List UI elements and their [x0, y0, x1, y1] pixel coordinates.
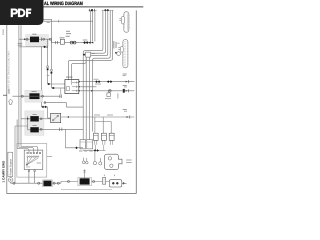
pentagon node marker	[9, 99, 13, 104]
connector C ring left	[26, 38, 28, 40]
starter pin lines	[126, 160, 131, 162]
wire into relay left y84	[48, 83, 65, 85]
tick on wire B	[58, 20, 60, 23]
coil drops to wire y150.5	[96, 145, 104, 151]
junction dot between circles	[72, 42, 73, 43]
verticals left lower x15 x17 x20 x22	[14, 126, 16, 183]
jog to y181.5	[60, 182, 62, 184]
stub wire right of housing	[47, 155, 52, 157]
K6 stem ticks	[83, 170, 85, 172]
RH2 left tab	[120, 46, 123, 52]
label above group2	[103, 5, 110, 8]
starter contact circles	[108, 157, 111, 160]
wire vertical x21	[20, 25, 22, 146]
diagram frame left border	[6, 7, 8, 193]
wire vertical pair under badge	[18, 25, 20, 147]
svg-text:Cont.: Cont.	[2, 29, 5, 35]
section tick across left border	[3, 94, 7, 96]
junction verticals x47.6 x51.4	[48, 39, 52, 88]
fusible link K5 outline	[43, 180, 53, 187]
label above relay U1	[66, 76, 73, 79]
tick end y117	[129, 115, 131, 118]
wire from badge area y19	[44, 18, 52, 20]
RH1 pin marks	[119, 19, 121, 21]
diamond y106.9 b	[44, 106, 47, 109]
wire relay pin1 right y81.6	[80, 81, 134, 83]
wire vertical g1 x92.7	[92, 10, 94, 41]
ignition coil K6 black	[80, 178, 90, 184]
label row3	[66, 35, 70, 38]
wire vertical x17.1 lower	[16, 120, 18, 149]
condenser cap1	[80, 140, 86, 149]
ignition coil 3	[109, 133, 114, 140]
junction dot group1	[91, 9, 93, 11]
ground blob right y91	[123, 89, 125, 93]
diamond connector d1	[83, 41, 86, 44]
battery feed stub	[10, 182, 12, 183]
arrow connector y117	[127, 116, 129, 118]
diamond on L wire	[75, 147, 78, 150]
ignition coil K6 outline	[78, 178, 92, 186]
label above K1	[32, 33, 36, 36]
labels above wire y117	[94, 114, 100, 117]
wire vertical x53	[51, 19, 53, 42]
relay feed wire F1	[68, 10, 112, 79]
connector arrow left of panel	[24, 38, 26, 40]
connector tick x92.9	[90, 41, 92, 44]
svg-text:CAMRY 3S-FE ENGINE (USA) EWD: CAMRY 3S-FE ENGINE (USA) EWD	[8, 51, 11, 93]
coil drops	[95, 117, 111, 133]
relay U1 inner lines	[66, 80, 79, 92]
vertical label above pentagon	[8, 89, 11, 94]
wire y102.6	[44, 103, 83, 108]
connector arrows end of main wire	[89, 42, 91, 44]
wire relay pin3 right y90.8	[80, 90, 134, 92]
tick end y81.6	[128, 80, 130, 83]
small component in bus area	[86, 52, 91, 57]
connector ring left of K2	[21, 95, 23, 97]
sensor stem 1	[83, 158, 85, 161]
connector tick pair on y129.3	[59, 128, 62, 131]
ignition coil 2	[102, 133, 107, 140]
contact circles pair	[70, 41, 73, 44]
svg-text:AL WIRING DIAGRAM: AL WIRING DIAGRAM	[44, 1, 83, 7]
ignition labels	[37, 162, 42, 165]
connector open square on x47.6	[47, 66, 49, 68]
fusible link K5 black	[43, 181, 51, 187]
junction dot x68.3	[68, 116, 69, 117]
starter housing S1	[104, 154, 122, 169]
battery ring icon	[8, 178, 13, 183]
PDF badge text (as paths)	[11, 9, 32, 18]
grey panel P3	[25, 111, 44, 135]
vertical label right area	[117, 93, 120, 98]
grey panel P2	[25, 90, 43, 102]
ignition switch top pin squares	[27, 152, 28, 153]
bottom bus y189.6	[61, 189, 112, 191]
connector ring x50.3	[49, 38, 51, 40]
PDF badge	[0, 0, 44, 25]
diagram frame top rule	[7, 6, 144, 8]
square connector y84	[48, 83, 50, 85]
wire y106.9 with diamonds	[41, 102, 50, 118]
wire from badge area y21	[44, 20, 93, 22]
central relay U1	[65, 80, 79, 94]
label 30A	[66, 32, 71, 35]
bus y121.5	[95, 121, 111, 123]
label AM2	[66, 30, 70, 33]
relay housing RH2 body	[123, 40, 128, 68]
ignition bottom pins	[29, 170, 35, 184]
connector ring left end	[13, 182, 15, 184]
RH1 scallop ticks	[124, 15, 130, 27]
connector ring y102.6	[44, 102, 46, 104]
connector ring K4 out	[40, 128, 42, 130]
feed arrows into relay U1	[68, 77, 73, 79]
diamond end y46.9	[43, 46, 46, 49]
black component K2	[29, 93, 39, 99]
arrow connector y90.8	[126, 90, 128, 92]
diamond y150.5 a	[94, 149, 97, 152]
RH2 label	[117, 42, 120, 45]
K6 stem up	[84, 169, 86, 178]
relay housing RH1 body	[124, 12, 129, 32]
wire vertical g1 x94.9	[94, 10, 96, 41]
arrow out of twin circle	[122, 182, 127, 184]
label above diamonds	[83, 39, 88, 42]
connecting stub y126	[15, 125, 28, 127]
ring connector y90.8	[108, 89, 111, 92]
connector marks on verticals	[18, 43, 23, 45]
wire into relay left y88	[51, 87, 65, 89]
relay R3	[51, 113, 61, 122]
arrow connector y81.6	[126, 81, 128, 83]
diagram frame right border	[135, 10, 137, 193]
connector square on x47.6	[47, 68, 49, 70]
wire K3 out right	[39, 118, 51, 120]
connector ring right of K2	[42, 95, 44, 97]
square connector y88	[52, 87, 54, 89]
bus ticks top group2	[102, 9, 114, 11]
black component K3	[30, 116, 39, 121]
connector ring K3 out	[40, 118, 42, 120]
pin arrow y81.6	[79, 81, 81, 83]
right margin labels wire2	[123, 84, 127, 87]
standing resistor box	[103, 178, 106, 185]
ignition assembly outer housing	[17, 144, 47, 178]
wire y46.9 below panel	[19, 46, 44, 48]
label near bus component	[92, 52, 96, 55]
label above K4	[33, 124, 37, 127]
label near squares	[47, 74, 50, 77]
diamond connector d2	[86, 41, 89, 44]
label below hanging box	[105, 97, 111, 100]
wire panel bottom vertical x41.4	[40, 46, 42, 90]
RH1 left tab	[121, 16, 124, 24]
ignition switch box	[24, 150, 43, 169]
twin circle component	[109, 180, 122, 187]
label above K3	[33, 113, 37, 116]
connector ring right of K1	[43, 38, 45, 40]
labels above sensors	[79, 150, 83, 153]
wire K4 out right	[39, 128, 83, 130]
connector tick pair x59.9 x61.4	[60, 94, 62, 98]
wire y150.5	[83, 150, 105, 152]
connector tick pair before fuse	[56, 41, 58, 44]
sensor stem 2	[86, 158, 88, 161]
label above group1	[88, 5, 95, 8]
vertical label text right of bundle	[112, 41, 115, 49]
labels around wire y81.6	[94, 78, 99, 81]
RH2 pin marks	[118, 48, 120, 50]
svg-text:Power Source: Power Source	[9, 159, 12, 176]
diamond at bus component	[83, 53, 86, 56]
power source label box	[8, 152, 13, 176]
RH1 inner line	[127, 13, 129, 30]
connector tick right of K1	[41, 37, 43, 41]
relay feed wire F2	[71, 58, 86, 80]
panel P3 left bus	[21, 116, 30, 130]
connector ring x58.3	[57, 182, 59, 184]
junction dot group2b	[107, 9, 109, 11]
relay R3 contacts	[52, 119, 54, 121]
sensor stem 3	[94, 151, 96, 162]
ring end y46.9	[46, 46, 48, 48]
diamond pair a	[95, 80, 98, 83]
label above K2	[32, 90, 37, 93]
grey panel top (noise filter)	[26, 35, 48, 47]
label above fuse	[60, 36, 65, 39]
diamond y106.9 a	[42, 106, 45, 109]
tick end y90.8	[128, 89, 130, 92]
fuse F1	[60, 39, 64, 44]
diamond y150.5 b	[96, 149, 99, 152]
junction dot group2	[104, 9, 106, 11]
sensor stem 4	[99, 158, 101, 162]
connector square on x51.4	[51, 72, 53, 74]
right margin labels wire3	[123, 108, 127, 111]
black component K4	[30, 127, 39, 132]
diagram frame bottom border	[7, 193, 137, 195]
ignition feed corners from left verticals	[17, 146, 38, 152]
ignition switch contact circles	[27, 156, 28, 157]
ignition coil 1	[94, 133, 99, 140]
RH2 scallop ticks	[123, 43, 129, 64]
right margin labels wire1	[123, 73, 127, 76]
main wire y42.6	[52, 42, 94, 44]
pin arrow y86.8	[79, 86, 81, 88]
wire relay pin2 right y86.8	[80, 86, 96, 88]
nested bus corner wire 1	[83, 10, 103, 139]
connector ring x68.5	[67, 180, 69, 182]
nested bus corner wire 3	[90, 10, 108, 139]
junction dot P3	[27, 118, 28, 119]
connector open square on x51.4	[51, 69, 53, 71]
diamond pair b	[107, 80, 110, 83]
connector ring x54.1	[53, 182, 55, 184]
stub up from tick pair	[60, 88, 62, 94]
wire y181.5	[61, 181, 109, 183]
wire relay R3 out	[61, 116, 135, 118]
RH2 inner ladder	[124, 42, 126, 67]
tick marks group1	[90, 9, 95, 12]
ignition switch fan contacts	[27, 158, 38, 165]
wire through top panel y39.2	[19, 38, 52, 40]
nested bus corner wire 2	[86, 10, 105, 139]
condenser cap2	[87, 140, 93, 149]
bottom wire y183.2	[11, 182, 61, 184]
label under wire A corner	[47, 21, 50, 24]
connector ring x93.6	[93, 180, 95, 182]
wire vertical g1 x90.7	[90, 10, 92, 41]
wire L to sensors	[66, 129, 84, 148]
connector circle with dot near RH2	[117, 52, 121, 56]
black component box K1	[30, 37, 39, 43]
ticks below starter	[104, 175, 114, 177]
connector ring x38.7	[38, 182, 40, 184]
hanging box under wire y90.8	[108, 91, 110, 93]
triangle connector y90.8	[91, 90, 93, 92]
title text ELECTRICAL WIRING DIAGRAM (left part hidden by PDF badge)	[44, 1, 83, 7]
bus ticks top group1	[88, 9, 96, 11]
pin arrow y90.8	[79, 90, 81, 92]
wire through K2 y96.2	[12, 95, 60, 97]
nested bus corner wire 4	[93, 10, 111, 131]
svg-text:1 CAMRY EWD: 1 CAMRY EWD	[1, 160, 5, 183]
